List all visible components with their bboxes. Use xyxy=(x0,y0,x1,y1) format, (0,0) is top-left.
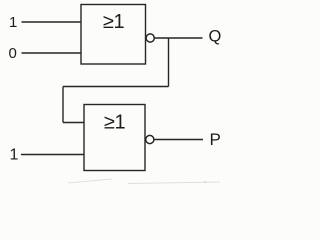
wire: feedback horizontal upper xyxy=(63,86,169,88)
NOR gate U2 box xyxy=(84,105,145,171)
svg-text:0: 0 xyxy=(9,45,17,62)
output bubble U1 xyxy=(146,34,154,42)
wire: input 1 to U2 xyxy=(21,154,84,156)
output bubble U2 xyxy=(146,135,154,143)
wire: feedback into U2 input xyxy=(63,122,84,124)
wire: feedback vertical from Q net xyxy=(168,38,170,87)
svg-text:P: P xyxy=(210,130,221,149)
wire: input 1 to U1 xyxy=(22,21,82,23)
svg-text:≥1: ≥1 xyxy=(103,11,124,33)
scan smudge bottom xyxy=(68,179,220,184)
wire: U2 bubble to P xyxy=(154,139,203,141)
wire: feedback vertical left xyxy=(62,87,64,123)
svg-text:1: 1 xyxy=(10,147,19,164)
wire: input 0 to U1 xyxy=(22,52,82,54)
svg-text:1: 1 xyxy=(9,14,17,31)
wire: U1 bubble to Q xyxy=(155,37,203,39)
svg-text:≥1: ≥1 xyxy=(104,112,125,134)
NOR gate U1 box xyxy=(81,5,146,65)
svg-text:Q: Q xyxy=(209,28,222,46)
